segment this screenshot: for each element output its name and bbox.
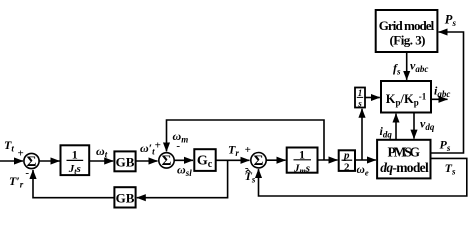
svg-text:PMSG: PMSG — [388, 145, 421, 160]
svg-text:Grid model: Grid model — [379, 18, 435, 33]
svg-text:Jms: Jms — [293, 163, 310, 176]
svg-text:Ts: Ts — [445, 161, 456, 177]
svg-text:s: s — [357, 99, 362, 109]
svg-text:ωe: ωe — [357, 164, 369, 178]
svg-text:ωm: ωm — [173, 129, 189, 145]
svg-text:idq: idq — [380, 124, 393, 140]
svg-text:iabc: iabc — [434, 84, 450, 100]
svg-text:vabc: vabc — [410, 59, 428, 75]
svg-text:Gc: Gc — [197, 154, 213, 171]
svg-text:GB: GB — [116, 191, 135, 206]
svg-text:ω′t: ω′t — [140, 141, 155, 157]
svg-text:1: 1 — [358, 88, 363, 98]
svg-text:1: 1 — [299, 147, 305, 161]
svg-text:ωt: ωt — [96, 144, 108, 160]
svg-text:+: + — [245, 144, 251, 156]
svg-text:vdq: vdq — [420, 117, 435, 133]
svg-text:Kp/Kp-1: Kp/Kp-1 — [386, 92, 427, 108]
svg-text:dq-model: dq-model — [380, 160, 429, 175]
svg-text:2: 2 — [344, 162, 350, 174]
svg-text:Tr: Tr — [228, 143, 239, 159]
svg-text:-: - — [25, 167, 29, 179]
svg-text:GB: GB — [116, 155, 135, 170]
svg-text:ωsl: ωsl — [177, 163, 192, 179]
svg-text:fs: fs — [393, 61, 401, 77]
svg-text:Jts: Jts — [68, 163, 81, 176]
svg-text:(Fig. 3): (Fig. 3) — [390, 33, 426, 48]
svg-text:Tt: Tt — [4, 138, 14, 154]
svg-text:+: + — [18, 147, 24, 159]
svg-text:p: p — [343, 150, 350, 162]
svg-text:Σ: Σ — [254, 153, 264, 169]
svg-text:Ps: Ps — [440, 138, 451, 154]
svg-text:T′r: T′r — [9, 174, 24, 190]
svg-text:+: + — [155, 139, 161, 151]
svg-text:Ps: Ps — [445, 13, 457, 29]
svg-text:1: 1 — [72, 148, 78, 162]
svg-text:Σ: Σ — [162, 153, 172, 169]
